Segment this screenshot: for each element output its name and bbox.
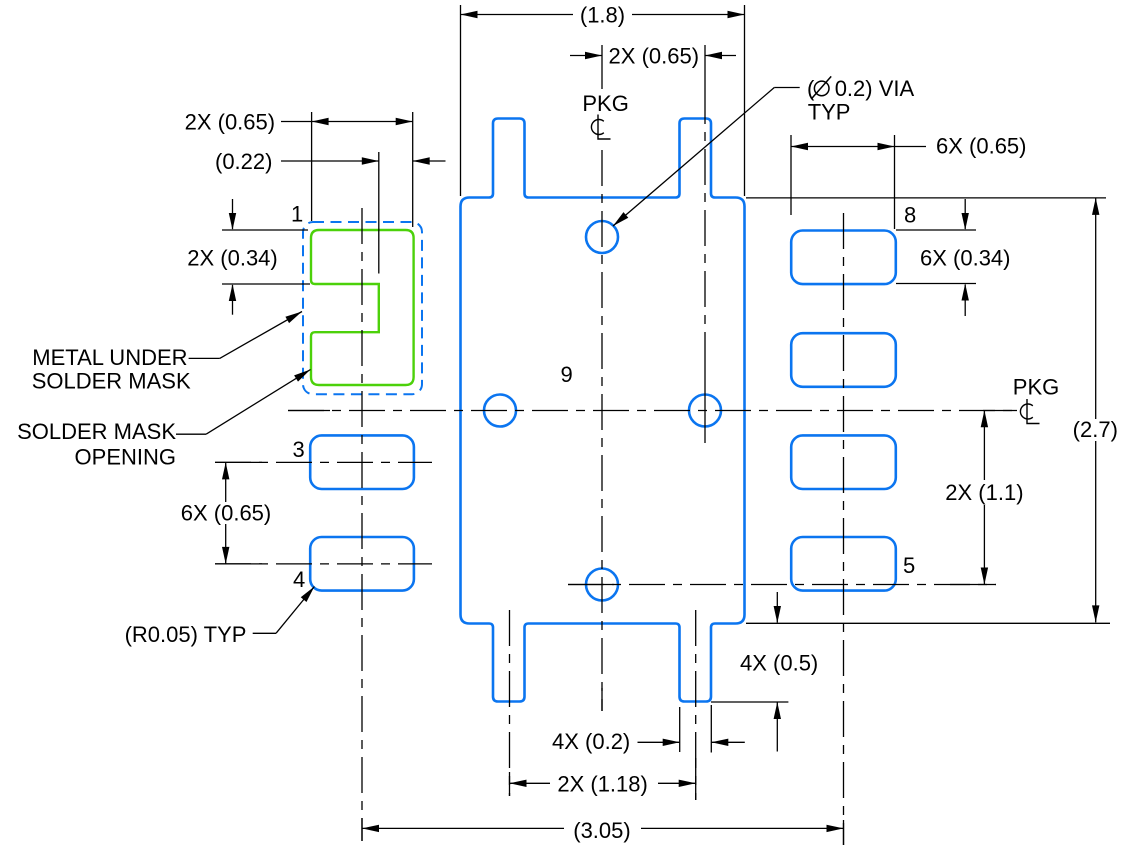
svg-text:TYP: TYP [808, 100, 851, 125]
dimension 6X (0.34) right [896, 199, 1011, 316]
svg-text:METAL UNDER: METAL UNDER [32, 345, 187, 370]
svg-text:(1.8): (1.8) [580, 2, 625, 27]
svg-text:2X (1.18): 2X (1.18) [557, 771, 648, 796]
centerline long-dash ends [215, 411, 1017, 846]
svg-text:(0.22): (0.22) [215, 149, 272, 174]
leader (dia 0.2) VIA TYP [611, 76, 915, 229]
svg-text:2X (0.65): 2X (0.65) [609, 43, 700, 68]
extension line via column right solid [704, 350, 706, 443]
extension line pad bottom right [746, 622, 1110, 624]
dimension (2.7) [1073, 198, 1118, 623]
dimension 4X (0.5) [711, 592, 818, 752]
svg-text:(3.05): (3.05) [573, 818, 630, 843]
via bottom [586, 569, 618, 601]
pad 8 [791, 231, 896, 285]
centerline right pad column [843, 213, 845, 845]
pad 7 [791, 333, 896, 387]
dimension (0.22) [215, 149, 446, 274]
leader SOLDER MASK OPENING [17, 366, 312, 469]
leader METAL UNDER SOLDER MASK [32, 308, 304, 393]
svg-text:4: 4 [293, 567, 305, 592]
centerline bottom tab right [695, 610, 697, 800]
svg-text:8: 8 [904, 202, 916, 227]
dimension 2X (0.65) top left [185, 109, 413, 227]
pad 5 [791, 537, 896, 591]
centerline bottom via row [568, 584, 996, 586]
centerline pad 3 row [215, 461, 432, 463]
pad 1 metal (green) [311, 230, 414, 385]
via left [484, 395, 516, 427]
via top [586, 221, 618, 253]
via right [689, 395, 721, 427]
svg-text:1: 1 [291, 202, 303, 227]
dimension (1.8) [461, 2, 745, 196]
dimension 6X (0.65) left [181, 462, 272, 564]
centerline pad 4 row [215, 563, 432, 565]
svg-text:(R0.05) TYP: (R0.05) TYP [125, 622, 247, 647]
dimension 2X (1.18) [510, 771, 696, 796]
svg-text:2X (1.1): 2X (1.1) [945, 480, 1023, 505]
centerline left pad column [361, 208, 363, 841]
svg-text:6X (0.65): 6X (0.65) [181, 500, 272, 525]
svg-text:SOLDER MASK: SOLDER MASK [32, 369, 191, 394]
pad 6 [791, 435, 896, 489]
svg-text:4X (0.5): 4X (0.5) [740, 651, 818, 676]
pad 1 solder mask opening (dashed) [303, 222, 422, 394]
svg-text:(2.7): (2.7) [1073, 417, 1118, 442]
svg-text:5: 5 [903, 553, 915, 578]
svg-text:2X (0.65): 2X (0.65) [185, 109, 276, 134]
dimension (3.05) [362, 818, 844, 843]
thermal pad 9 outline [461, 119, 745, 702]
svg-text:PKG: PKG [582, 91, 628, 116]
svg-text:OPENING: OPENING [75, 444, 176, 469]
pad 3 [310, 435, 414, 489]
extension line pad top right [746, 197, 1106, 199]
svg-text:SOLDER MASK: SOLDER MASK [17, 419, 176, 444]
centerline symbol top [591, 115, 610, 140]
svg-text:6X (0.65): 6X (0.65) [936, 134, 1027, 159]
dimension 6X (0.65) right [791, 134, 1027, 230]
centerline bottom tab left [509, 610, 511, 796]
dimension 2X (0.65) top [570, 43, 736, 89]
svg-text:PKG: PKG [1013, 374, 1059, 399]
leader (R0.05) TYP [125, 584, 318, 647]
centerline via column right [704, 88, 706, 350]
svg-text:2X (0.34): 2X (0.34) [187, 246, 278, 271]
dimension 2X (1.1) [945, 410, 1023, 584]
dimension 4X (0.2) [552, 705, 745, 754]
centerline package vertical [601, 150, 603, 711]
pad 4 [310, 537, 414, 591]
svg-text:9: 9 [561, 362, 573, 387]
svg-text:3: 3 [293, 437, 305, 462]
svg-text:6X (0.34): 6X (0.34) [920, 246, 1011, 271]
svg-text:4X (0.2): 4X (0.2) [552, 729, 630, 754]
centerline symbol right [1020, 399, 1039, 424]
centerline package horizontal [288, 410, 1017, 412]
svg-text:0.2) VIA: 0.2) VIA [835, 76, 915, 101]
dimension 2X (0.34) left [187, 199, 310, 315]
